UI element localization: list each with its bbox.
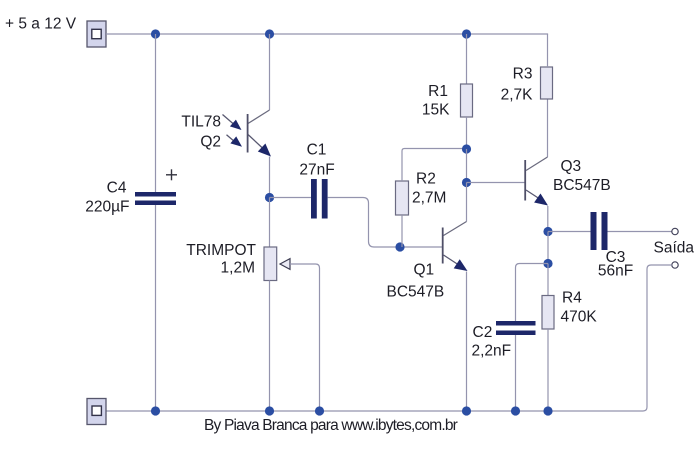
wire trimpot bottom lead [269, 281, 271, 412]
junction dot bottom rail / R4 [543, 406, 552, 415]
junction dot top rail / R1 branch [462, 29, 471, 38]
svg-text:BC547B: BC547B [553, 177, 611, 194]
capacitor C3 [591, 212, 608, 250]
junction dot bottom rail / Q1 emitter [462, 406, 471, 415]
junction dot bottom rail / trimpot [265, 406, 274, 415]
junction dot R2/base node [395, 242, 404, 251]
svg-text:470K: 470K [561, 309, 598, 326]
wire R2 top lead [402, 149, 467, 182]
phototransistor Q2 [248, 114, 271, 157]
wire node to C3 [548, 231, 591, 233]
wire node to C2 [516, 264, 549, 322]
svg-text:2,7M: 2,7M [412, 190, 446, 207]
wire C3 to output [608, 231, 672, 233]
junction dot Q3 emitter node [543, 227, 552, 236]
wire R1 bottom lead [466, 117, 468, 149]
resistor R4 [542, 296, 554, 330]
wire bottom rail [106, 410, 643, 412]
junction dot R4/C2 node [543, 259, 552, 268]
svg-text:C2: C2 [473, 324, 493, 341]
wire R2 bottom lead [401, 215, 403, 247]
wire Q2 collector branch [269, 34, 271, 110]
terminal J1 top-left [87, 21, 106, 47]
wire R1 top lead [466, 34, 468, 84]
wire node to C1 [270, 197, 312, 199]
junction dot top rail / Q2 branch [265, 29, 274, 38]
svg-text:1,2M: 1,2M [221, 260, 255, 277]
capacitor C2 [496, 321, 536, 335]
wire Q3 emitter down [547, 206, 549, 232]
svg-text:By Piava Branca para www.ibyte: By Piava Branca para www.ibytes,com.br [204, 417, 458, 434]
capacitor C4 [135, 192, 176, 205]
output terminal circle 1 [672, 228, 678, 234]
wire Q3 collector [547, 99, 549, 157]
junction dot bottom rail / wiper [315, 406, 324, 415]
svg-text:Q1: Q1 [414, 262, 435, 279]
svg-text:220µF: 220µF [85, 199, 129, 216]
wire C2 bottom lead [515, 335, 517, 411]
resistor R2 [396, 181, 409, 215]
svg-text:R1: R1 [428, 83, 448, 100]
svg-text:56nF: 56nF [598, 263, 633, 280]
svg-text:R4: R4 [562, 290, 582, 307]
transistor Q3 [525, 160, 548, 206]
svg-text:Q3: Q3 [561, 158, 582, 175]
junction dot bottom rail / C2 [511, 406, 520, 415]
wire Q2 emitter down [269, 157, 271, 198]
wire R4 top lead [547, 264, 549, 296]
svg-text:C4: C4 [107, 180, 127, 197]
wire C4 branch upper [155, 34, 157, 192]
svg-text:15K: 15K [422, 102, 450, 119]
svg-text:Saída: Saída [654, 240, 695, 257]
wire trimpot top lead [269, 198, 271, 248]
svg-text:Q2: Q2 [200, 134, 221, 151]
wire R3 top lead [547, 34, 549, 67]
svg-text:+ 5 a 12 V: + 5 a 12 V [5, 16, 77, 33]
Q2 light arrow 1 [223, 115, 242, 131]
wire top rail [106, 33, 548, 35]
svg-text:TIL78: TIL78 [181, 114, 221, 131]
svg-text:C1: C1 [307, 142, 327, 159]
wire emitter node down [547, 232, 549, 264]
wire Q1 emitter down [466, 272, 468, 412]
trimpot body 1,2M [264, 247, 277, 281]
wire Q1 collector [466, 183, 468, 222]
svg-text:2,2nF: 2,2nF [472, 343, 512, 360]
trimpot wiper arrow [280, 259, 290, 270]
C4 polarity plus sign [166, 169, 177, 180]
svg-text:TRIMPOT: TRIMPOT [186, 242, 256, 259]
wire R4 bottom lead [547, 329, 549, 411]
junction dot bottom rail / C4 [151, 406, 160, 415]
junction dot Q2 emitter node [265, 193, 274, 202]
svg-text:BC547B: BC547B [387, 284, 445, 301]
svg-text:R2: R2 [416, 171, 436, 188]
wire trimpot wiper to bottom rail [290, 264, 320, 411]
resistor R1 [461, 84, 473, 117]
resistor R3 [541, 67, 553, 99]
Q2 light arrow 2 [227, 135, 243, 147]
wire node to node [466, 149, 468, 183]
wire C4 branch lower [155, 205, 157, 411]
wire C1 to Q1 base [328, 198, 442, 248]
output terminal circle 2 [672, 262, 678, 268]
junction dot top rail / C4 branch [151, 29, 160, 38]
capacitor C1 [311, 179, 328, 219]
svg-text:R3: R3 [513, 66, 533, 83]
transistor Q1 [443, 228, 468, 272]
terminal J2 bottom-left [87, 399, 106, 425]
junction dot Q1 collector / Q3 base node [462, 178, 471, 187]
svg-text:27nF: 27nF [299, 162, 334, 179]
svg-text:2,7K: 2,7K [501, 87, 534, 104]
wire Q3 base [467, 182, 525, 184]
junction dot R1/R2 node [462, 144, 471, 153]
wire output 2 to bottom rail [643, 265, 672, 411]
